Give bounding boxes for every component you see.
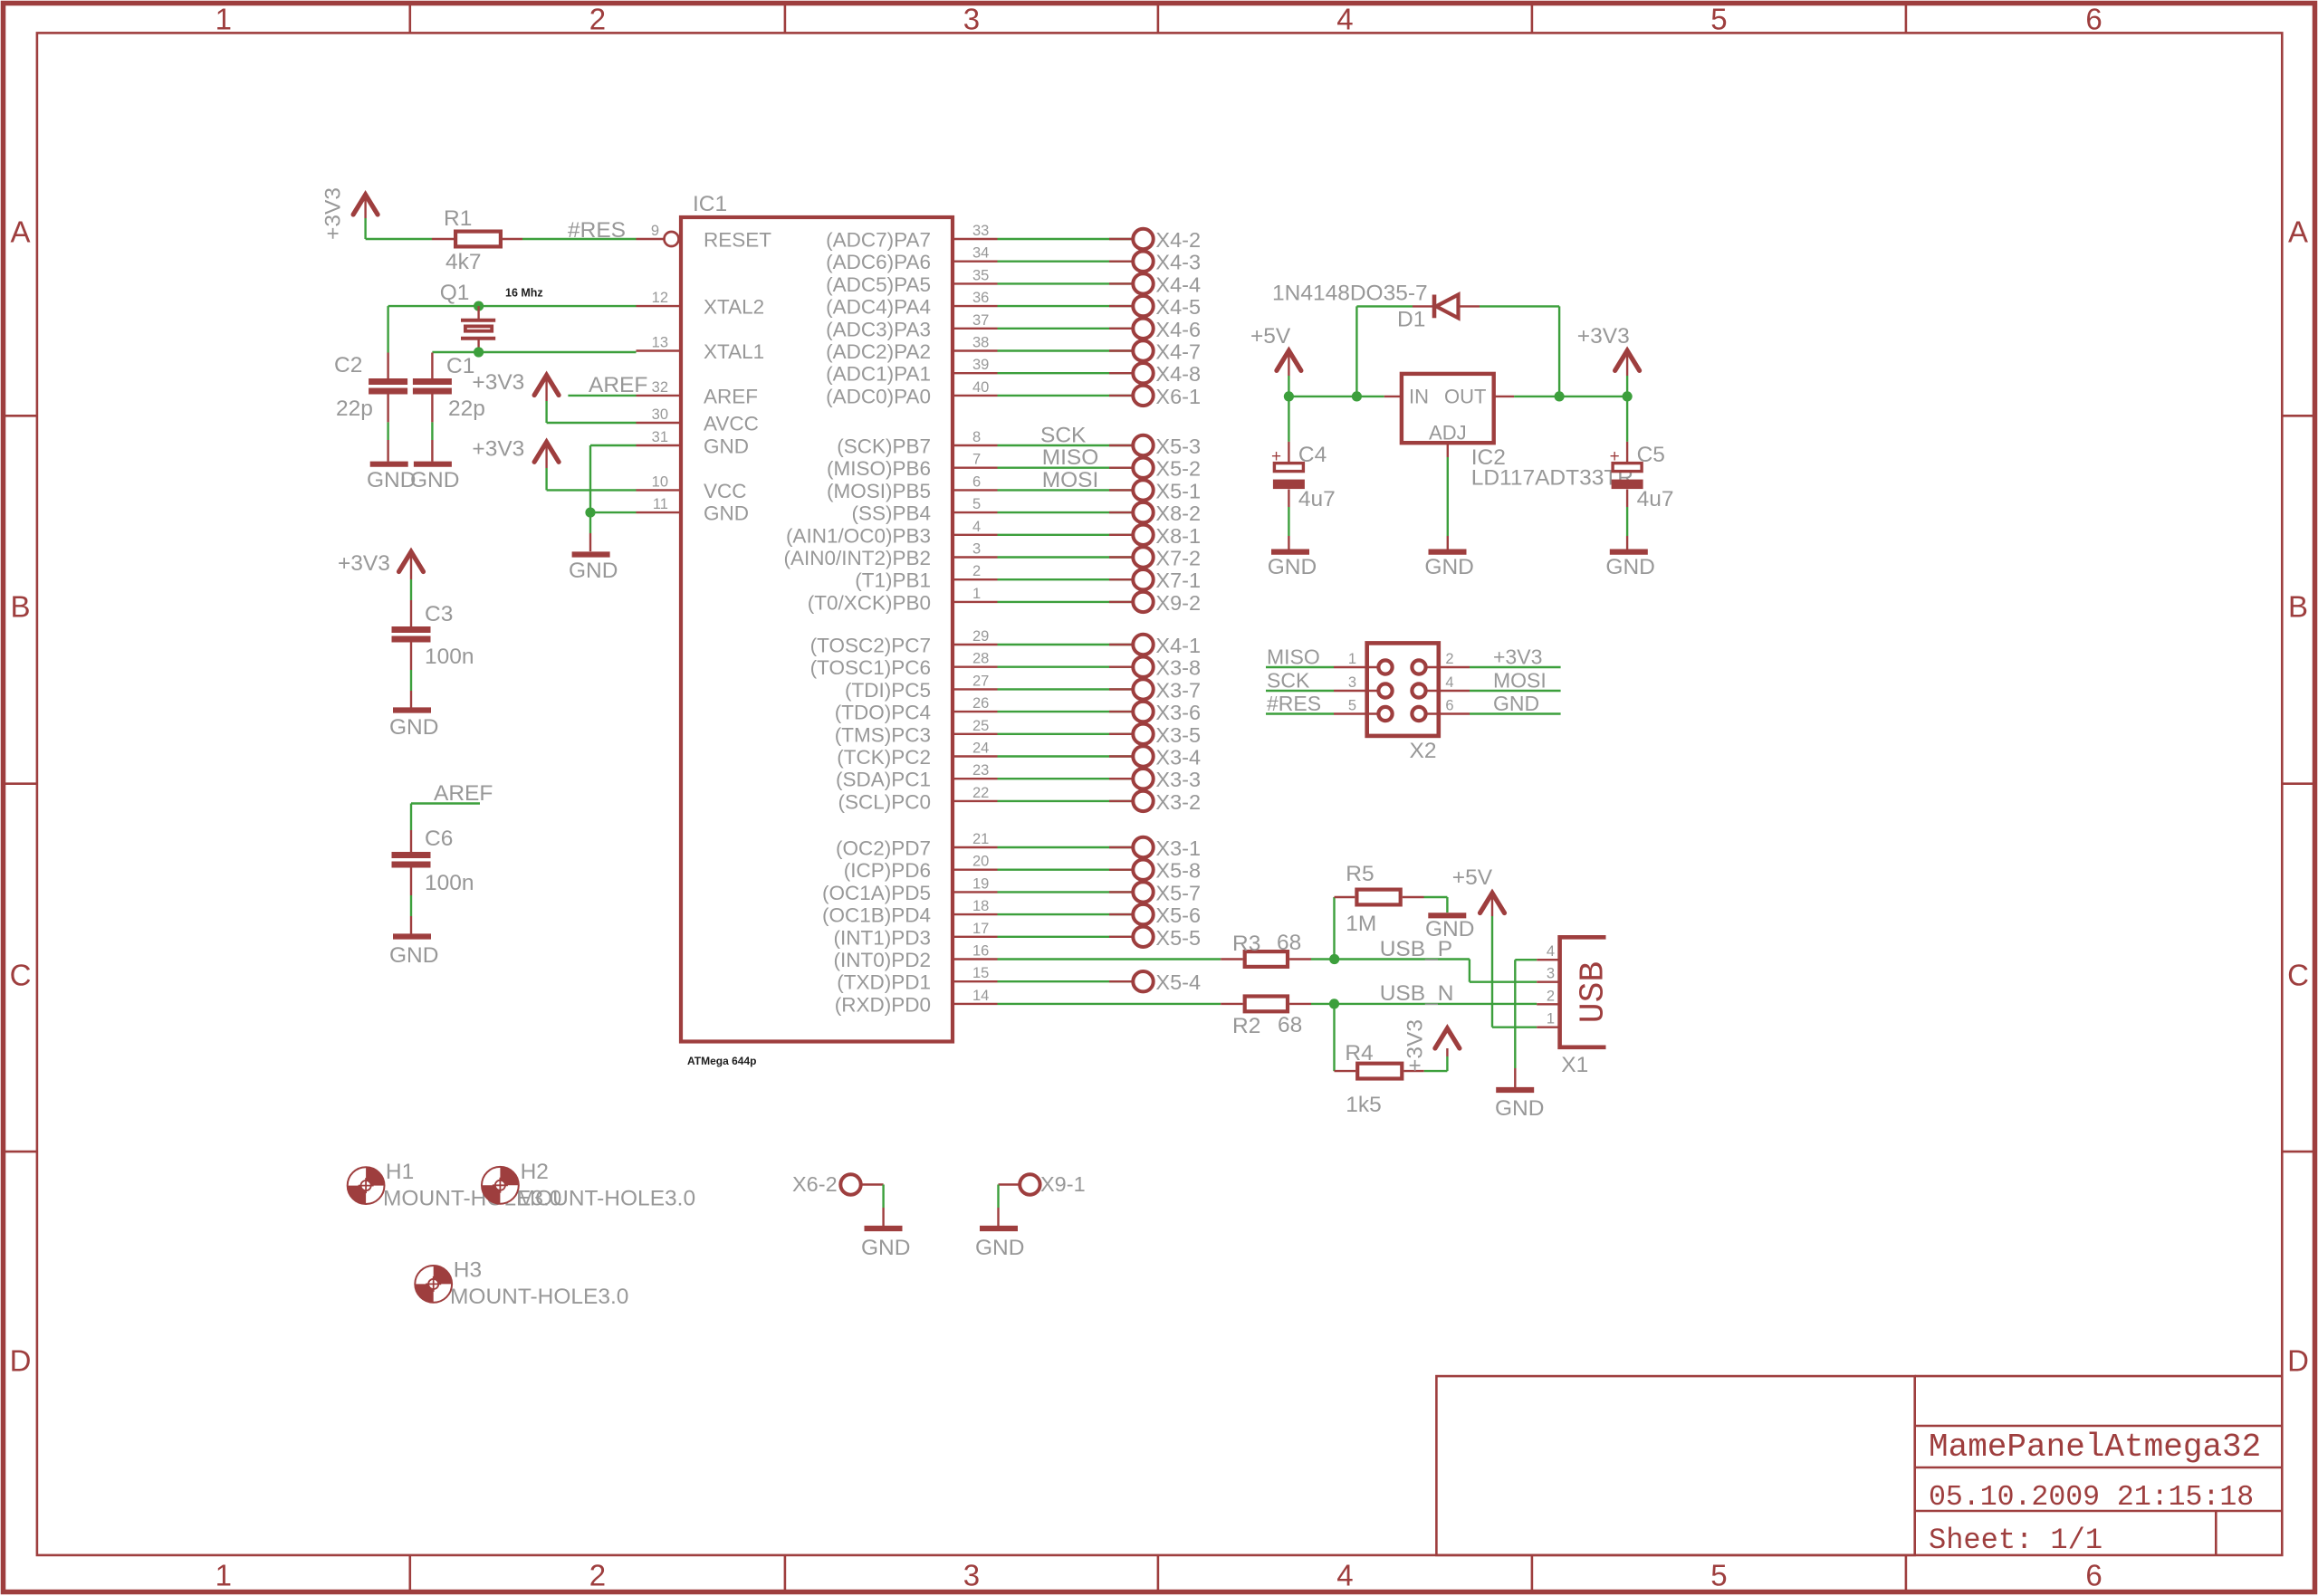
IC IC1 ATMega644p body: [681, 217, 953, 1042]
frame column ticks bottom: [408, 1555, 411, 1592]
wire +5V rail to IC2 IN: [1288, 396, 1384, 397]
IC1 right pin 28 (TOSC1)PC6: [953, 666, 998, 668]
svg-text:+3V3: +3V3: [321, 187, 346, 240]
X2 pad pin 6: [1412, 707, 1425, 721]
svg-text:GND: GND: [1493, 692, 1539, 715]
wire USB_N to X1 pin2: [1335, 1003, 1537, 1005]
wire IC1 pin 19 to pad X5-7: [998, 891, 1135, 893]
svg-text:C4: C4: [1298, 443, 1327, 467]
svg-text:D1: D1: [1397, 308, 1425, 332]
wire X6-2 to ground: [860, 1183, 884, 1185]
ground below C5: [1610, 549, 1648, 554]
IC1 left pin 30 AVCC: [637, 422, 682, 424]
ground below IC2 ADJ: [1429, 549, 1467, 554]
wire IC1 pin 36 to pad X4-5: [998, 305, 1135, 307]
ground below C4: [1271, 549, 1309, 554]
svg-text:X3-1: X3-1: [1155, 836, 1201, 860]
crystal Q1: [477, 306, 479, 320]
mount hole H2: [482, 1167, 519, 1204]
svg-text:#RES: #RES: [1267, 692, 1321, 715]
pad X3-6: [1133, 702, 1153, 722]
pad X9-1: [1020, 1174, 1039, 1194]
frame column ticks top: [408, 4, 411, 33]
svg-text:11: 11: [653, 496, 668, 512]
node +3V3 junction: [1623, 391, 1633, 401]
IC1 right pin 3 (AIN0/INT2)PB2: [953, 556, 998, 558]
svg-text:36: 36: [972, 290, 989, 306]
capacitor C3: [392, 626, 431, 633]
svg-text:3: 3: [1348, 674, 1356, 691]
IC1 left pin 9 RESET: [637, 238, 665, 240]
svg-text:AREF: AREF: [434, 781, 493, 806]
wire junction to ground: [589, 512, 591, 533]
svg-text:IN: IN: [1409, 385, 1429, 407]
svg-text:4k7: 4k7: [445, 250, 482, 274]
IC1 right pin 20 (ICP)PD6: [953, 869, 998, 871]
svg-text:1N4148DO35-7: 1N4148DO35-7: [1272, 282, 1428, 306]
svg-text:(T1)PB1: (T1)PB1: [855, 569, 931, 592]
wire R3 to USB_P node: [1289, 958, 1311, 960]
wire X1 pin4 to ground: [1515, 959, 1537, 960]
wire USB_P node to R5: [1333, 897, 1335, 960]
pad X5-6: [1133, 904, 1153, 924]
IC1 right pin 4 (AIN1/OC0)PB3: [953, 534, 998, 536]
svg-text:(TDO)PC4: (TDO)PC4: [835, 702, 931, 724]
X2 pin 6 wire GND: [1425, 712, 1470, 714]
wire +3V3 to AVCC: [547, 422, 637, 424]
wire R2 to USB_N node: [1289, 1003, 1311, 1005]
svg-text:22p: 22p: [448, 397, 485, 421]
svg-text:X9-2: X9-2: [1155, 591, 1201, 615]
svg-text:9: 9: [651, 223, 659, 239]
svg-text:5: 5: [972, 496, 981, 512]
capacitor C1: [413, 378, 452, 385]
svg-text:1: 1: [1547, 1011, 1555, 1027]
svg-text:IC1: IC1: [693, 192, 727, 216]
svg-text:R1: R1: [444, 206, 472, 231]
pad X5-2: [1133, 458, 1153, 478]
svg-text:X5-2: X5-2: [1155, 457, 1201, 481]
svg-text:GND: GND: [389, 715, 438, 740]
node USB_P junction: [1329, 954, 1339, 964]
X2 pin 4 wire MOSI: [1425, 690, 1470, 692]
IC1 right pin 23 (SDA)PC1: [953, 778, 998, 779]
svg-text:4: 4: [1336, 1559, 1353, 1592]
svg-text:(TMS)PC3: (TMS)PC3: [835, 723, 931, 746]
node OUT junction: [1555, 391, 1565, 401]
wire XTAL1 net: [432, 351, 636, 353]
svg-text:GND: GND: [410, 468, 459, 492]
IC1 right pin 35 (ADC5)PA5: [953, 282, 998, 284]
svg-text:SCK: SCK: [1267, 669, 1310, 693]
svg-text:B: B: [2288, 590, 2308, 624]
IC1 right pin 29 (TOSC2)PC7: [953, 644, 998, 645]
wire IC1 pin 17 to pad X5-5: [998, 936, 1135, 938]
pad X5-3: [1133, 435, 1153, 455]
resistor R4: [1357, 1064, 1402, 1079]
IC1 right pin 8 (SCK)PB7: [953, 444, 998, 446]
pad X3-4: [1133, 746, 1153, 766]
svg-text:X4-8: X4-8: [1155, 362, 1201, 386]
IC1 right pin 34 (ADC6)PA6: [953, 261, 998, 263]
svg-text:X7-1: X7-1: [1155, 569, 1201, 592]
wire IC1 pin 5 to pad X8-2: [998, 511, 1135, 513]
svg-text:32: 32: [652, 379, 668, 396]
svg-text:X3-4: X3-4: [1155, 746, 1201, 769]
wire IC1 pin 22 to pad X3-2: [998, 800, 1135, 802]
svg-text:22p: 22p: [336, 397, 373, 421]
wire IC1 pin 38 to pad X4-7: [998, 349, 1135, 351]
svg-text:X5-3: X5-3: [1155, 435, 1201, 458]
IC1 right pin 5 (SS)PB4: [953, 511, 998, 513]
svg-text:GND: GND: [1424, 555, 1473, 579]
wire +3V3 to R1: [366, 238, 432, 240]
wire IC1 GND pin31 down: [590, 444, 637, 446]
svg-text:X7-2: X7-2: [1155, 547, 1201, 570]
IC1 left pin 13 XTAL1: [637, 349, 682, 351]
wire +5V rail to C4: [1288, 397, 1289, 442]
svg-text:2: 2: [589, 3, 606, 36]
svg-text:15: 15: [972, 965, 989, 981]
svg-text:4: 4: [972, 519, 981, 535]
svg-text:13: 13: [652, 335, 668, 351]
svg-text:4u7: 4u7: [1298, 487, 1336, 511]
svg-text:6: 6: [2085, 3, 2102, 36]
svg-text:6: 6: [1445, 698, 1453, 714]
pad X3-8: [1133, 657, 1153, 677]
svg-text:MOUNT-HOLE3.0: MOUNT-HOLE3.0: [517, 1187, 695, 1211]
svg-text:38: 38: [972, 335, 989, 351]
X2 pin 1 wire MISO: [1266, 666, 1334, 668]
pad X3-3: [1133, 769, 1153, 788]
pad X5-1: [1133, 480, 1153, 500]
svg-text:19: 19: [972, 875, 989, 892]
pad X4-8: [1133, 363, 1153, 383]
wire IC1 PD0 to R2 (USB_N): [998, 1003, 1221, 1005]
IC1 right pin 24 (TCK)PC2: [953, 755, 998, 757]
power +3V3 arrow (R1): [353, 195, 378, 215]
X2 pin 5 wire #RES: [1266, 712, 1334, 714]
svg-text:Sheet: 1/1: Sheet: 1/1: [1929, 1524, 2102, 1557]
pad X6-2: [840, 1174, 860, 1194]
ground below IC1 GND pins: [572, 551, 610, 557]
svg-text:(SCL)PC0: (SCL)PC0: [838, 790, 931, 813]
power +3V3 arrow (R4): [1435, 1028, 1460, 1048]
IC1 right pin 40 (ADC0)PA0: [953, 395, 998, 397]
svg-text:MOUNT-HOLE3.0: MOUNT-HOLE3.0: [450, 1285, 628, 1309]
IC1 left pin 31 GND: [637, 444, 682, 446]
svg-text:4u7: 4u7: [1637, 487, 1674, 511]
svg-text:(OC1A)PD5: (OC1A)PD5: [822, 882, 931, 904]
wire IC1 pin 24 to pad X3-4: [998, 755, 1135, 757]
svg-text:2: 2: [1445, 651, 1453, 667]
wire USB_N node to R4: [1333, 1004, 1335, 1071]
svg-text:35: 35: [972, 267, 989, 283]
svg-text:23: 23: [972, 762, 989, 779]
pad X4-3: [1133, 252, 1153, 272]
svg-text:H2: H2: [521, 1160, 549, 1184]
wire AREF to C6: [411, 802, 480, 804]
wire IC1 pin 8 to pad X5-3: [998, 444, 1135, 446]
node XTAL2 junction: [474, 301, 484, 311]
wire IC1 PD2 to R3 (USB_P): [998, 958, 1221, 960]
svg-text:(ADC5)PA5: (ADC5)PA5: [826, 273, 931, 296]
svg-text:(INT0)PD2: (INT0)PD2: [833, 949, 931, 971]
wire R1 to IC1 RESET (#RES net): [503, 238, 522, 240]
svg-text:MOSI: MOSI: [1493, 669, 1547, 693]
wire IC1 pin 26 to pad X3-6: [998, 711, 1135, 712]
pad X7-2: [1133, 547, 1153, 567]
svg-text:X6-1: X6-1: [1155, 385, 1201, 408]
svg-text:(TXD)PD1: (TXD)PD1: [837, 971, 931, 994]
svg-text:H3: H3: [454, 1258, 482, 1283]
IC1 right pin 37 (ADC3)PA3: [953, 328, 998, 330]
svg-text:+5V: +5V: [1250, 324, 1291, 349]
svg-text:68: 68: [1278, 1013, 1302, 1037]
IC1 right pin 26 (TDO)PC4: [953, 711, 998, 712]
svg-text:27: 27: [972, 673, 989, 689]
IC1 RESET inversion bubble: [665, 232, 679, 246]
title block outline: [1436, 1376, 1914, 1555]
pad X5-4: [1133, 971, 1153, 991]
X2 pin 2 wire +3V3: [1425, 666, 1470, 668]
svg-text:+3V3: +3V3: [1493, 645, 1542, 669]
svg-text:X4-2: X4-2: [1155, 228, 1201, 252]
IC1 right pin 22 (SCL)PC0: [953, 800, 998, 802]
node D1/IN junction: [1352, 391, 1362, 401]
frame row ticks left: [4, 415, 37, 417]
svg-text:X4-4: X4-4: [1155, 272, 1201, 296]
svg-text:20: 20: [972, 854, 989, 870]
IC1 right pin 17 (INT1)PD3: [953, 936, 998, 938]
svg-text:D: D: [2287, 1344, 2309, 1378]
svg-text:1: 1: [972, 586, 981, 602]
svg-text:31: 31: [652, 429, 668, 445]
wire IC1 pin 4 to pad X8-1: [998, 534, 1135, 536]
svg-text:B: B: [10, 590, 30, 624]
svg-text:XTAL1: XTAL1: [704, 340, 764, 363]
svg-text:VCC: VCC: [704, 480, 747, 502]
svg-text:5: 5: [1348, 698, 1356, 714]
wire IC1 pin 34 to pad X4-3: [998, 261, 1135, 263]
svg-text:X5-7: X5-7: [1155, 881, 1201, 904]
wire IC1 pin 18 to pad X5-6: [998, 913, 1135, 915]
wire IC1 pin 2 to pad X7-1: [998, 578, 1135, 580]
IC1 right pin 7 (MISO)PB6: [953, 467, 998, 469]
wire IC1 pin 23 to pad X3-3: [998, 778, 1135, 779]
svg-text:R5: R5: [1346, 862, 1374, 886]
svg-text:C2: C2: [334, 353, 362, 377]
svg-text:24: 24: [972, 741, 989, 757]
svg-text:1: 1: [1348, 651, 1356, 667]
IC1 right pin 14 (RXD)PD0: [953, 1003, 998, 1005]
pad X4-7: [1133, 340, 1153, 360]
svg-text:R3: R3: [1232, 932, 1260, 956]
svg-text:+3V3: +3V3: [338, 551, 390, 576]
svg-text:AVCC: AVCC: [704, 413, 759, 435]
svg-text:(TDI)PC5: (TDI)PC5: [845, 679, 931, 702]
IC1 left pin 32 AREF: [637, 395, 682, 397]
svg-text:14: 14: [972, 988, 989, 1004]
svg-text:X5-1: X5-1: [1155, 479, 1201, 502]
frame row ticks right: [2282, 415, 2314, 417]
svg-text:XTAL2: XTAL2: [704, 296, 764, 319]
wire D1 cathode to +5V rail: [1356, 305, 1413, 307]
svg-text:6: 6: [972, 473, 981, 490]
pad X4-1: [1133, 635, 1153, 655]
power +3V3 arrow (AVCC): [534, 376, 559, 396]
wire IC2 OUT to +3V3 rail: [1494, 396, 1514, 397]
svg-text:(MOSI)PB5: (MOSI)PB5: [827, 480, 931, 502]
svg-text:22: 22: [972, 785, 989, 801]
svg-text:(INT1)PD3: (INT1)PD3: [833, 926, 931, 949]
svg-text:(ADC7)PA7: (ADC7)PA7: [826, 229, 931, 252]
svg-text:ADJ: ADJ: [1429, 422, 1467, 444]
svg-text:7: 7: [972, 452, 981, 468]
X2 pad pin 1: [1378, 660, 1392, 674]
svg-text:+5V: +5V: [1452, 865, 1493, 890]
IC1 right pin 36 (ADC4)PA4: [953, 305, 998, 307]
capacitor C6: [392, 852, 431, 858]
svg-text:MISO: MISO: [1042, 445, 1099, 470]
svg-text:X4-7: X4-7: [1155, 340, 1201, 364]
svg-text:(ADC0)PA0: (ADC0)PA0: [826, 385, 931, 407]
svg-text:8: 8: [972, 429, 981, 445]
svg-text:X3-2: X3-2: [1155, 790, 1201, 814]
svg-text:X5-5: X5-5: [1155, 926, 1201, 950]
svg-text:5: 5: [1710, 1559, 1727, 1592]
svg-text:GND: GND: [1605, 555, 1654, 579]
IC1 left pin 10 VCC: [637, 489, 682, 491]
svg-text:3: 3: [963, 3, 980, 36]
svg-text:100n: 100n: [425, 871, 474, 895]
svg-text:(ICP)PD6: (ICP)PD6: [844, 859, 931, 882]
IC1 right pin 27 (TDI)PC5: [953, 688, 998, 690]
svg-text:X4-1: X4-1: [1155, 634, 1201, 657]
svg-text:4: 4: [1547, 943, 1555, 960]
resistor R1: [455, 232, 501, 247]
svg-text:1: 1: [216, 1559, 232, 1592]
svg-text:X6-2: X6-2: [792, 1172, 838, 1196]
svg-text:(OC1B)PD4: (OC1B)PD4: [822, 904, 931, 927]
X2 pad pin 2: [1412, 660, 1425, 674]
svg-text:(ADC6)PA6: (ADC6)PA6: [826, 251, 931, 273]
svg-text:C1: C1: [446, 354, 474, 378]
pad X7-1: [1133, 569, 1153, 589]
pad X5-7: [1133, 882, 1153, 902]
svg-text:05.10.2009 21:15:18: 05.10.2009 21:15:18: [1929, 1482, 2254, 1514]
wire +5V to X1 pin1: [1491, 916, 1493, 1027]
power +3V3 arrow (C3): [399, 552, 424, 572]
svg-text:GND: GND: [1495, 1096, 1544, 1121]
svg-text:3: 3: [963, 1559, 980, 1592]
X2 pad pin 4: [1412, 683, 1425, 697]
wire +3V3 rail to C5: [1626, 397, 1628, 442]
svg-text:5: 5: [1710, 3, 1727, 36]
wire IC1 pin 40 to pad X6-1: [998, 395, 1135, 397]
IC1 right pin 19 (OC1A)PD5: [953, 891, 998, 893]
svg-text:39: 39: [972, 357, 989, 373]
svg-text:40: 40: [972, 379, 989, 396]
IC1 right pin 2 (T1)PB1: [953, 578, 998, 580]
connector X1 USB body: [1560, 937, 1606, 1047]
pad X4-6: [1133, 319, 1153, 339]
svg-text:26: 26: [972, 695, 989, 712]
pad X8-1: [1133, 525, 1153, 545]
IC1 right pin 39 (ADC1)PA1: [953, 372, 998, 374]
svg-text:16 Mhz: 16 Mhz: [505, 287, 543, 300]
wire X9-1 to ground: [999, 1183, 1021, 1185]
wire IC1 pin 39 to pad X4-8: [998, 372, 1135, 374]
power +3V3 arrow (VCC): [534, 442, 559, 462]
svg-text:(AIN0/INT2)PB2: (AIN0/INT2)PB2: [783, 547, 931, 569]
svg-text:(MISO)PB6: (MISO)PB6: [827, 457, 931, 480]
svg-text:MamePanelAtmega32: MamePanelAtmega32: [1929, 1429, 2261, 1466]
wire R4 to +3V3: [1403, 1070, 1423, 1072]
svg-text:4: 4: [1336, 3, 1353, 36]
svg-text:Q1: Q1: [440, 281, 470, 305]
wire AREF net to IC1: [568, 395, 636, 397]
pad X3-7: [1133, 679, 1153, 699]
wire IC1 pin 20 to pad X5-8: [998, 869, 1135, 871]
mount hole H1: [348, 1167, 385, 1204]
resistor R3: [1245, 951, 1288, 967]
IC1 right pin 15 (TXD)PD1: [953, 980, 998, 982]
svg-text:29: 29: [972, 628, 989, 645]
voltage regulator IC2 LD117A body: [1402, 374, 1494, 443]
mount hole H3: [415, 1266, 452, 1303]
svg-text:GND: GND: [1268, 555, 1317, 579]
svg-text:(ADC3)PA3: (ADC3)PA3: [826, 318, 931, 340]
svg-text:10: 10: [652, 473, 668, 490]
node XTAL1 junction: [474, 347, 484, 357]
svg-text:100n: 100n: [425, 645, 474, 669]
ground below C3: [393, 707, 431, 712]
wire IC1 pin 37 to pad X4-6: [998, 328, 1135, 330]
svg-text:X4-6: X4-6: [1155, 318, 1201, 341]
wire IC1 pin 3 to pad X7-2: [998, 556, 1135, 558]
svg-text:1M: 1M: [1346, 912, 1376, 936]
svg-text:1k5: 1k5: [1346, 1093, 1382, 1117]
svg-text:OUT: OUT: [1444, 385, 1486, 407]
svg-text:28: 28: [972, 651, 989, 667]
svg-text:D: D: [10, 1344, 32, 1378]
svg-text:C: C: [2287, 959, 2309, 992]
X1 pin 3 stub: [1537, 980, 1559, 982]
wire IC1 pin 1 to pad X9-2: [998, 601, 1135, 603]
svg-text:USB: USB: [1575, 961, 1614, 1023]
svg-text:MISO: MISO: [1267, 645, 1320, 669]
wire C2 to XTAL2: [387, 306, 388, 352]
power +3V3 arrow (regulator): [1615, 350, 1640, 370]
svg-text:33: 33: [972, 223, 989, 239]
svg-text:X5-6: X5-6: [1155, 903, 1201, 927]
svg-text:X5-4: X5-4: [1155, 970, 1201, 994]
svg-text:GND: GND: [569, 559, 618, 583]
svg-text:R2: R2: [1232, 1014, 1260, 1038]
capacitor C2: [369, 378, 407, 385]
svg-text:X8-1: X8-1: [1155, 524, 1201, 548]
wire C1 to XTAL1: [431, 353, 433, 379]
svg-text:(AIN1/OC0)PB3: (AIN1/OC0)PB3: [786, 524, 931, 547]
svg-text:LD117ADT33TR: LD117ADT33TR: [1471, 466, 1633, 491]
wire IC1 pin 28 to pad X3-8: [998, 666, 1135, 668]
wire IC1 pin 33 to pad X4-2: [998, 238, 1135, 240]
svg-text:AREF: AREF: [589, 373, 647, 397]
svg-text:(RXD)PD0: (RXD)PD0: [835, 993, 931, 1016]
svg-text:37: 37: [972, 312, 989, 329]
wire +3V3 to VCC: [547, 489, 637, 491]
